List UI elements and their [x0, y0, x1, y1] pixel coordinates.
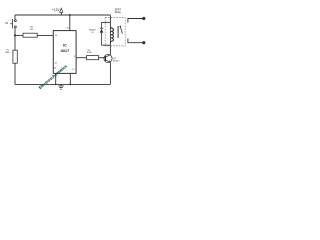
label SPDT Relay [115, 8, 122, 14]
resistor R2 [23, 27, 37, 38]
wire relay NO terminal [128, 17, 145, 23]
wire junction to R1 [14, 35, 16, 50]
wire R2 to IC pin 14 [37, 34, 53, 36]
relay contact arm [118, 26, 122, 38]
svg-text:4017: 4017 [60, 48, 70, 53]
wire top +12V rail [15, 14, 110, 16]
wire collector node tie [102, 44, 111, 46]
label D1 [89, 29, 97, 33]
pin 16 wire VDD [69, 15, 71, 31]
resistor R1 [5, 50, 17, 64]
label Q1 BC547 [113, 58, 120, 63]
wire Q1 collector up [109, 45, 111, 54]
node +12V supply arrow [52, 8, 63, 15]
svg-text:+12V: +12V [52, 8, 60, 12]
relay dashed enclosure [105, 18, 125, 46]
pushbutton S1 [10, 19, 16, 28]
wire pin 8 to ground rail [69, 73, 71, 84]
wire R1 to bottom rail [14, 63, 16, 84]
svg-text:1MΩ: 1MΩ [5, 51, 10, 54]
wire pin 2 to R3 [76, 57, 86, 59]
IC U1 4017 box [53, 31, 76, 74]
node rail junction pin8 [69, 84, 71, 86]
wire junction to R2 [15, 34, 23, 36]
node pin16 rail junction [69, 14, 71, 16]
wire R3 to Q1 base [99, 57, 106, 59]
wire top tie diode/coil [102, 21, 111, 23]
svg-text:BC547: BC547 [113, 61, 120, 63]
diode D1 1N4007 [100, 22, 104, 45]
wire Q1 emitter down to rail [109, 62, 111, 84]
wire bottom ground rail [15, 83, 110, 85]
resistor R3 [87, 50, 99, 60]
relay coil L1 [110, 15, 113, 45]
wire S1 to junction [14, 28, 16, 36]
svg-text:S1: S1 [5, 21, 9, 25]
node rail junction pin13 [55, 84, 57, 86]
transistor Q1 [104, 54, 112, 62]
svg-text:Relay: Relay [115, 11, 122, 14]
svg-text:10kΩ: 10kΩ [87, 51, 92, 54]
wire pin 15/13 to ground rail [55, 73, 57, 84]
node junction A [14, 34, 16, 36]
wire relay common terminal [128, 39, 145, 45]
wire left drop from rail to S1 [14, 15, 16, 20]
ground [58, 84, 63, 89]
